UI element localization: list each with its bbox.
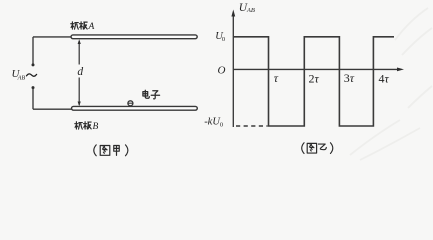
svg-text:A: A <box>88 22 95 32</box>
y-axis <box>232 13 234 128</box>
label 电子 <box>143 90 160 99</box>
svg-text:0: 0 <box>220 121 223 128</box>
label U0 <box>215 31 225 43</box>
electron symbol <box>128 101 133 106</box>
label 极板B <box>75 122 99 132</box>
source tilde ~ <box>27 74 37 76</box>
svg-text:AB: AB <box>17 74 26 81</box>
terminal dot lower <box>32 86 35 89</box>
svg-text:3τ: 3τ <box>344 71 355 85</box>
label 极板A <box>71 22 95 32</box>
watermark <box>350 8 432 160</box>
wire left upper segment <box>32 37 34 64</box>
dimension arrow d (upper part) <box>78 41 80 65</box>
source label U_AB <box>12 68 26 81</box>
wire left lower segment <box>32 88 34 110</box>
terminal dot upper <box>32 63 35 66</box>
x-axis <box>233 68 399 70</box>
svg-text:-kU: -kU <box>204 116 221 127</box>
svg-text:B: B <box>93 122 99 132</box>
wire bottom <box>33 108 72 110</box>
label -kU0 <box>204 116 223 128</box>
caption (图乙) <box>302 143 304 154</box>
svg-text:AB: AB <box>246 7 255 14</box>
caption (图甲) <box>94 145 96 156</box>
plate B <box>72 106 198 110</box>
svg-text:τ: τ <box>274 71 279 85</box>
svg-text:0: 0 <box>222 36 225 43</box>
axis label U_AB <box>239 2 255 14</box>
dimension arrow d (lower part) <box>78 78 80 105</box>
svg-text:d: d <box>77 66 83 78</box>
wire top <box>33 36 71 38</box>
square wave <box>233 37 394 126</box>
svg-text:4τ: 4τ <box>379 71 390 85</box>
dashed level -kU0 <box>236 125 268 127</box>
plate A <box>71 35 197 39</box>
svg-text:O: O <box>218 65 226 77</box>
svg-text:2τ: 2τ <box>309 71 320 85</box>
